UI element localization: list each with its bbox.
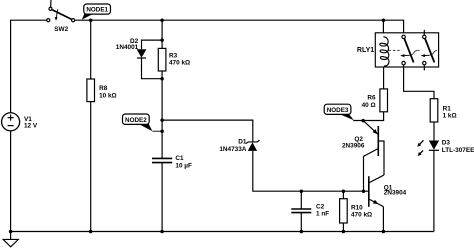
node C: NODE3 flag (324, 104, 354, 120)
node B: NODE2 flag (123, 114, 163, 131)
resistor R8 (87, 79, 95, 102)
wire: SW2 top terminal feed from image top edge (50, 0, 52, 7)
svg-text:1 nF: 1 nF (316, 211, 329, 218)
svg-text:12 V: 12 V (24, 123, 38, 130)
diode D2 (137, 49, 147, 58)
svg-text:R10: R10 (351, 204, 363, 211)
wire: R1 bottom to D3 (433, 122, 435, 141)
wire: V1 bottom to ground rail (10, 131, 12, 232)
svg-text:NODE3: NODE3 (327, 107, 349, 114)
wire: C2 branch (300, 191, 302, 209)
wire: R8 branch from top rail (90, 20, 92, 79)
wire: V1 top up and right to SW2 left terminal (11, 20, 47, 113)
capacitor C2 (291, 209, 311, 213)
resistor R1 (430, 99, 438, 122)
svg-text:1 kΩ: 1 kΩ (443, 113, 457, 120)
diode D1 zener (246, 140, 260, 151)
svg-text:RLY1: RLY1 (357, 47, 374, 54)
wire: R3 bottom down to C1 (161, 71, 163, 158)
ground (3, 232, 18, 247)
capacitor C1 (152, 158, 172, 162)
switch SW2 (47, 7, 75, 22)
wire: R10 branch (342, 191, 344, 199)
wire: R8 bottom to rail (90, 102, 92, 232)
svg-text:2N3906: 2N3906 (342, 143, 365, 150)
resistor R6 (380, 89, 388, 112)
svg-text:470 kΩ: 470 kΩ (169, 60, 190, 67)
svg-text:2N3904: 2N3904 (384, 190, 407, 197)
svg-text:10 µF: 10 µF (175, 162, 192, 169)
wire: bottom rail (11, 231, 434, 233)
svg-text:1N4733A: 1N4733A (219, 146, 246, 153)
dashed actuation line (389, 50, 437, 55)
coil (380, 37, 389, 66)
svg-text:NODE1: NODE1 (86, 7, 108, 14)
svg-text:C2: C2 (316, 203, 325, 210)
svg-text:40 Ω: 40 Ω (362, 102, 376, 109)
relay RLY1 (375, 30, 438, 71)
svg-text:R3: R3 (169, 52, 178, 59)
wire: coil top feed from top rail (382, 20, 384, 37)
svg-text:D3: D3 (442, 140, 451, 147)
svg-text:SW2: SW2 (54, 26, 68, 33)
relay switch 2 (423, 35, 426, 38)
svg-text:C1: C1 (175, 155, 184, 162)
wire: R3 branch from top rail (161, 20, 163, 48)
LED D3 (417, 140, 439, 156)
transistor Q2 (363, 121, 384, 192)
svg-text:470 kΩ: 470 kΩ (351, 212, 372, 219)
wire: D2 top connector (142, 40, 163, 49)
wire: D2 bottom connector (142, 58, 163, 79)
svg-text:R6: R6 (367, 95, 376, 102)
wire: D3 cathode down to rail corner (433, 150, 435, 231)
pole 1 arrow (404, 54, 409, 56)
transistor Q1 (369, 175, 384, 232)
wire: NODE3 rail to R6 bottom (353, 112, 383, 121)
wire: top rail from SW2 right terminal to relay switch1 top (75, 20, 404, 35)
resistor R3 (158, 48, 166, 71)
wire: relay switch1 bottom to R1 (404, 65, 434, 99)
svg-text:R8: R8 (99, 85, 108, 92)
pole 2 arrow (425, 54, 430, 56)
svg-text:1N4001: 1N4001 (116, 44, 139, 51)
wire: D1 anode down and right to Q1 base (253, 151, 369, 191)
svg-text:10 kΩ: 10 kΩ (99, 92, 117, 99)
svg-text:NODE2: NODE2 (125, 117, 147, 124)
wire: R10 bottom to rail (342, 223, 344, 232)
resistor R10 (340, 199, 348, 223)
wire: C2 bottom to rail (300, 213, 302, 232)
wire: NODE2 to D1 (162, 120, 253, 142)
svg-text:R1: R1 (443, 106, 452, 113)
svg-text:D1: D1 (238, 139, 247, 146)
voltage source V1 (2, 113, 20, 131)
svg-text:LTL-307EE: LTL-307EE (442, 147, 474, 154)
relay switch 1 (402, 35, 405, 38)
wire: C1 bottom to rail (161, 163, 163, 232)
node A: NODE1 flag (82, 4, 111, 20)
switch 2 stubs (423, 30, 425, 35)
wire: R6 top to relay coil (383, 66, 385, 89)
